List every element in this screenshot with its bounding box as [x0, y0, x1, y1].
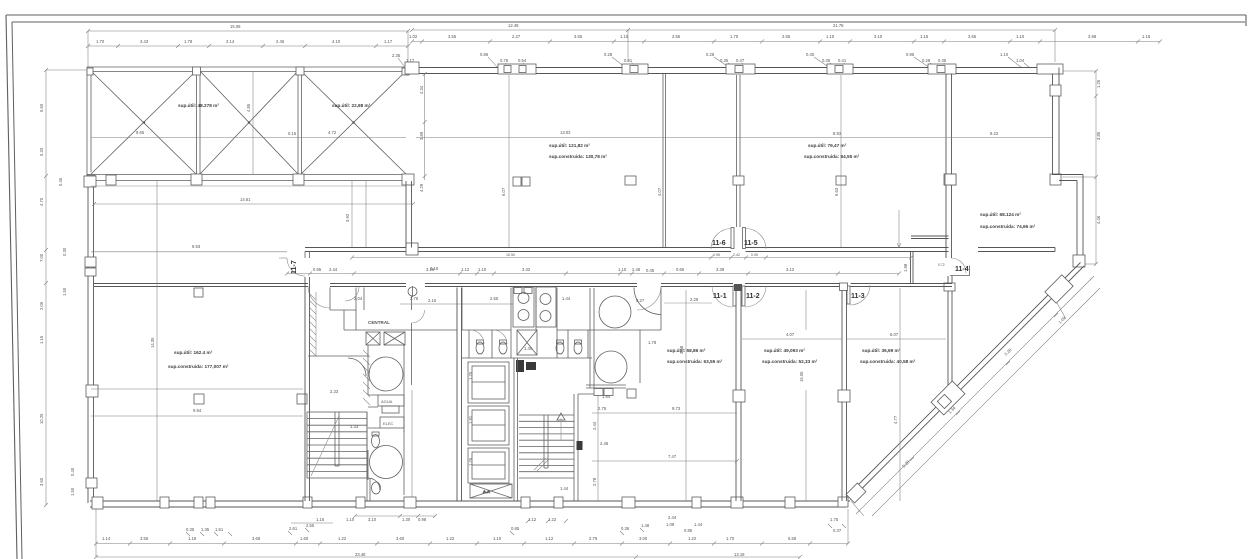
free column room 121,82: [513, 177, 521, 186]
svg-text:3.32: 3.32: [522, 267, 531, 272]
svg-text:16.06: 16.06: [799, 371, 804, 382]
door 11-4 jamb wall: [950, 266, 970, 276]
svg-text:11-2: 11-2: [746, 293, 760, 300]
svg-text:0.30: 0.30: [62, 247, 67, 256]
circles room door arc: [634, 288, 661, 315]
svg-text:0.61: 0.61: [624, 58, 633, 63]
svg-text:7.47: 7.47: [668, 454, 677, 459]
svg-text:2.44: 2.44: [592, 421, 597, 430]
svg-text:3.39: 3.39: [716, 267, 725, 272]
svg-text:3.10: 3.10: [368, 517, 377, 522]
svg-text:9.73: 9.73: [672, 406, 681, 411]
svg-text:0.95: 0.95: [906, 52, 915, 57]
door 11-4 arc: [938, 258, 969, 273]
diagonal end tick: [851, 501, 864, 516]
terrace outline: [87, 67, 409, 176]
dim 14.61 below terrace: [92, 197, 415, 206]
shower X box: [517, 330, 537, 355]
svg-text:4.29: 4.29: [419, 183, 424, 192]
svg-text:1.10: 1.10: [1000, 52, 1009, 57]
ELEC box: [380, 417, 404, 428]
right step wall: [1052, 175, 1083, 181]
dim total terrace: [86, 24, 410, 67]
svg-text:sup.construida: 177,007 m²: sup.construida: 177,007 m²: [168, 364, 229, 369]
svg-text:4.72: 4.72: [328, 130, 337, 135]
AGUA box: [378, 395, 404, 406]
dim row small near pilasters: [480, 52, 1030, 68]
svg-text:1.04: 1.04: [1016, 58, 1025, 63]
svg-text:14.35: 14.35: [150, 337, 155, 348]
sink unit left: [513, 287, 534, 327]
wc cabins left partitions: [469, 330, 492, 358]
svg-text:1.12: 1.12: [545, 536, 554, 541]
svg-text:1.44: 1.44: [694, 522, 703, 527]
svg-text:sup.construida: 74,66 m²: sup.construida: 74,66 m²: [980, 224, 1036, 229]
svg-text:1.25: 1.25: [468, 371, 473, 380]
bath area walls: [462, 288, 592, 359]
diagonal corner block: [846, 483, 866, 503]
vestibule door arc 2: [345, 287, 359, 301]
wall B thin partition (x=664): [663, 74, 666, 248]
svg-text:15.08: 15.08: [230, 24, 241, 29]
dim arrow x=899: [897, 210, 901, 248]
svg-text:2.55: 2.55: [782, 34, 791, 39]
svg-text:11-4: 11-4: [955, 266, 969, 273]
svg-text:0.95: 0.95: [751, 253, 758, 257]
svg-text:1.09: 1.09: [666, 522, 675, 527]
bottom small dim clusters: [186, 514, 846, 536]
WC in tank room: [372, 432, 380, 448]
svg-text:1.15: 1.15: [620, 34, 629, 39]
svg-text:2.44: 2.44: [329, 267, 338, 272]
core A hatched wall: [310, 292, 316, 356]
heater X-box 2: [384, 332, 405, 345]
toilet 2: [499, 340, 507, 354]
room 49,093 dims: [742, 332, 842, 339]
terrace node dots: [143, 121, 355, 123]
toilet 1 door arc: [470, 330, 484, 344]
svg-text:sup.útil: 68.124 m²: sup.útil: 68.124 m²: [980, 212, 1021, 217]
dim line x=412 lower: [411, 390, 413, 497]
svg-text:2.45: 2.45: [276, 39, 285, 44]
svg-text:sup.útil: 36,69 m²: sup.útil: 36,69 m²: [862, 348, 901, 353]
stair A right wall: [367, 412, 370, 501]
column circle symbol: [408, 286, 417, 297]
toilet 2 door arc: [493, 330, 507, 344]
circles room left wall: [590, 288, 594, 388]
svg-text:5.58: 5.58: [788, 536, 797, 541]
svg-text:11-6: 11-6: [712, 240, 726, 247]
svg-text:2.61: 2.61: [289, 526, 298, 531]
svg-text:0.45: 0.45: [646, 268, 655, 273]
svg-text:6.63: 6.63: [834, 187, 839, 196]
left wall columns: [84, 176, 96, 187]
big circle 1: [599, 296, 631, 328]
svg-text:2.33: 2.33: [330, 389, 339, 394]
svg-text:AGUA: AGUA: [381, 399, 393, 404]
door 11-1 leaf: [733, 286, 736, 306]
circles room walls: [586, 288, 661, 389]
svg-text:0.28: 0.28: [922, 58, 931, 63]
door 11-5 arc: [744, 229, 766, 250]
svg-text:sup.útil: 22,88 m²: sup.útil: 22,88 m²: [332, 103, 371, 108]
svg-text:2.46: 2.46: [600, 441, 609, 446]
tank circle 2: [370, 446, 403, 479]
svg-text:11-5: 11-5: [744, 240, 758, 247]
svg-text:3.55: 3.55: [574, 34, 583, 39]
rooms top wall y=285: [94, 284, 952, 287]
right wall upper: [1053, 68, 1060, 182]
tank 1 door arc: [348, 358, 366, 376]
dark duct 1: [516, 360, 524, 372]
svg-text:1.10: 1.10: [618, 267, 627, 272]
svg-text:0.40: 0.40: [70, 467, 75, 476]
bottom total dim row: [94, 552, 802, 559]
diagonal dim line: [856, 276, 1094, 514]
tank 2 enclosure: [368, 430, 404, 495]
svg-text:0.98: 0.98: [418, 517, 427, 522]
svg-text:0.40: 0.40: [806, 52, 815, 57]
top wall: [405, 68, 1060, 74]
tank circle 1: [369, 357, 403, 391]
partition x=411.5 with door: [411, 296, 413, 385]
svg-text:2.35: 2.35: [392, 53, 401, 58]
terrace bottom wall: [87, 175, 413, 181]
wc cabins right partitions: [557, 330, 592, 358]
svg-text:2.75: 2.75: [598, 406, 607, 411]
svg-text:sup.construida: 52,33 m²: sup.construida: 52,33 m²: [762, 359, 818, 364]
svg-text:sup.útil: 162.4 m²: sup.útil: 162.4 m²: [174, 350, 213, 355]
svg-text:0.86: 0.86: [480, 52, 489, 57]
svg-text:2.06: 2.06: [39, 301, 44, 310]
svg-text:1.40: 1.40: [524, 346, 533, 351]
svg-text:1.48: 1.48: [641, 523, 650, 528]
svg-text:1.35: 1.35: [201, 527, 210, 532]
corridor top wall columns: [406, 243, 418, 255]
svg-text:11-1: 11-1: [713, 293, 727, 300]
terrace bay divider 1: [197, 71, 201, 174]
svg-text:1.91: 1.91: [468, 415, 473, 424]
room 162.4 dims: [91, 389, 303, 416]
svg-text:4.10: 4.10: [332, 39, 341, 44]
svg-text:0.15: 0.15: [288, 131, 297, 136]
A-A box: [470, 484, 512, 498]
svg-text:0.85: 0.85: [511, 526, 520, 531]
svg-text:1.22: 1.22: [446, 536, 455, 541]
elevator shaft 2: [468, 406, 509, 445]
svg-text:1.22: 1.22: [338, 536, 347, 541]
svg-text:1.26: 1.26: [1096, 79, 1101, 88]
room 58,86 dims: [592, 406, 737, 413]
diagonal outer dim line: [872, 288, 1100, 516]
svg-text:4.85: 4.85: [246, 103, 251, 112]
svg-text:9.94: 9.94: [193, 408, 202, 413]
right wall lower: [1077, 175, 1083, 267]
svg-text:7.00: 7.00: [39, 253, 44, 262]
svg-text:6.07: 6.07: [890, 332, 899, 337]
svg-text:2.16: 2.16: [428, 298, 437, 303]
svg-text:4.46: 4.46: [1096, 215, 1101, 224]
svg-text:3.16: 3.16: [430, 266, 439, 271]
svg-text:A-A: A-A: [483, 489, 490, 494]
svg-text:0.85: 0.85: [684, 528, 693, 533]
wall below terrace right x=410: [406, 181, 412, 248]
dim texts bath: [490, 296, 571, 351]
diagonal glazing block 2 (junction): [931, 381, 965, 415]
column at wall B: [625, 176, 636, 185]
svg-text:3.10: 3.10: [874, 34, 883, 39]
svg-text:3.43: 3.43: [140, 39, 149, 44]
svg-text:3.89: 3.89: [419, 131, 424, 140]
svg-text:1.17: 1.17: [384, 39, 393, 44]
line below terrace wall: [91, 185, 406, 187]
terrace dim vertical: [252, 71, 254, 174]
core A vestibule walls: [330, 288, 356, 331]
terrace X bracing bay2: [200, 71, 298, 174]
svg-text:0.28: 0.28: [604, 52, 613, 57]
room 68.124 label: [980, 212, 1036, 229]
wall jog x=911: [911, 236, 949, 284]
svg-text:0.47: 0.47: [736, 58, 745, 63]
svg-text:3.12: 3.12: [786, 267, 795, 272]
svg-text:2.46: 2.46: [632, 267, 641, 272]
door 11-2 arc: [745, 286, 766, 307]
terrace mid dim line: [91, 130, 406, 138]
svg-text:4.34: 4.34: [419, 85, 424, 94]
terrace top columns: [193, 67, 201, 75]
wall x=737 (rooms 121,82 / 79,47): [737, 75, 741, 227]
terrace X bracing bay3: [301, 71, 406, 174]
sink unit right: [536, 287, 556, 327]
diagonal glazing block 1: [1045, 275, 1073, 303]
svg-text:0.45: 0.45: [58, 177, 63, 186]
dark duct 2: [526, 362, 536, 370]
svg-text:0.35: 0.35: [822, 58, 831, 63]
svg-text:2.29: 2.29: [690, 297, 699, 302]
circles room door arc: [637, 286, 661, 310]
toilet by stair A: [368, 478, 381, 494]
svg-text:1.16: 1.16: [39, 335, 44, 344]
svg-text:1.44: 1.44: [560, 486, 569, 491]
svg-text:3.68: 3.68: [252, 536, 261, 541]
svg-text:0.54: 0.54: [518, 58, 527, 63]
terrace bay divider 2: [298, 71, 302, 174]
svg-text:1.76: 1.76: [468, 457, 473, 466]
svg-text:1.12: 1.12: [461, 267, 470, 272]
svg-text:3.56: 3.56: [140, 536, 149, 541]
svg-text:0.28: 0.28: [706, 52, 715, 57]
svg-text:9.65: 9.65: [136, 130, 145, 135]
core A mid walls: [308, 345, 404, 432]
svg-text:2.42: 2.42: [733, 253, 740, 257]
svg-text:1.14: 1.14: [102, 536, 111, 541]
corridor top wall y=248: [305, 248, 1055, 252]
svg-text:sup.construida: 40,58 m²: sup.construida: 40,58 m²: [860, 359, 916, 364]
svg-text:9.22: 9.22: [990, 131, 999, 136]
svg-text:sup.útil: 79,47 m²: sup.útil: 79,47 m²: [808, 143, 847, 148]
svg-text:10.25: 10.25: [39, 413, 44, 424]
bottom wall columns: [92, 497, 103, 509]
door 11-3 leaf: [847, 286, 850, 304]
wall between elevators and stair B: [514, 358, 518, 501]
free column room 79,47: [836, 176, 846, 185]
door 11-1 arc: [712, 286, 733, 307]
svg-text:ELEC: ELEC: [383, 421, 394, 426]
door 11-6 arc: [711, 229, 732, 250]
svg-text:CENTRAL: CENTRAL: [368, 320, 390, 325]
svg-text:3.55: 3.55: [448, 34, 457, 39]
small boxes below wall: [594, 389, 603, 396]
svg-text:1.44: 1.44: [562, 296, 571, 301]
svg-text:1.22: 1.22: [688, 536, 697, 541]
svg-text:3.98: 3.98: [1088, 34, 1097, 39]
svg-text:3.60: 3.60: [39, 477, 44, 486]
room 162.4 columns: [194, 288, 203, 297]
svg-text:6.07: 6.07: [501, 187, 506, 196]
door 11-6 leaf: [731, 228, 734, 249]
svg-text:0.95: 0.95: [713, 253, 720, 257]
svg-text:14.61: 14.61: [240, 197, 251, 202]
svg-text:sup.útil: 58,86 m²: sup.útil: 58,86 m²: [667, 348, 706, 353]
svg-text:3.14: 3.14: [226, 39, 235, 44]
door 11-5 leaf: [743, 228, 746, 249]
diagonal wall: [847, 263, 1084, 501]
svg-text:2.55: 2.55: [672, 34, 681, 39]
svg-text:1.33: 1.33: [350, 424, 359, 429]
svg-text:1.15: 1.15: [826, 34, 835, 39]
svg-text:8.93: 8.93: [833, 131, 842, 136]
svg-text:1.75: 1.75: [830, 517, 839, 522]
svg-text:2.04: 2.04: [354, 296, 363, 301]
door 11-7: [287, 252, 310, 277]
elevator shaft 1: [468, 362, 509, 403]
door 11-3 arc: [850, 285, 870, 305]
bottom wall: [90, 501, 850, 507]
svg-text:3.85: 3.85: [1096, 131, 1101, 140]
svg-text:1.18: 1.18: [1142, 34, 1151, 39]
svg-text:1.70: 1.70: [96, 39, 105, 44]
svg-text:1.10: 1.10: [1016, 34, 1025, 39]
stairs B arrow: [557, 413, 565, 420]
core A left wall: [305, 277, 310, 501]
svg-text:1.75: 1.75: [730, 34, 739, 39]
dim row main segments: [409, 34, 1162, 44]
stairs A diagonal: [311, 416, 339, 476]
svg-text:11-3: 11-3: [851, 293, 865, 300]
room 121,82 dim: [416, 130, 1052, 138]
svg-text:3.60: 3.60: [396, 536, 405, 541]
svg-text:23.48: 23.48: [355, 552, 366, 557]
svg-text:1.10: 1.10: [493, 536, 502, 541]
svg-text:1.10: 1.10: [478, 267, 487, 272]
room 36,69 dims: [847, 332, 946, 339]
svg-text:4.07: 4.07: [657, 187, 662, 196]
left inner small dims: [58, 177, 75, 496]
elevator shaft 3: [468, 448, 509, 483]
svg-text:0.41: 0.41: [838, 58, 847, 63]
svg-text:0.36: 0.36: [621, 526, 630, 531]
bottom extension lines: [96, 509, 848, 557]
svg-text:0.37: 0.37: [833, 528, 842, 533]
svg-text:2.55: 2.55: [490, 296, 499, 301]
svg-text:0.33: 0.33: [39, 147, 44, 156]
svg-text:10.50: 10.50: [506, 253, 515, 257]
room 58,86 label: [667, 348, 723, 364]
svg-text:2.78: 2.78: [592, 477, 597, 486]
column mid room right: [945, 174, 956, 185]
dim row terrace segments: [86, 39, 410, 48]
stairs A: [307, 412, 367, 478]
svg-text:0.27: 0.27: [636, 298, 645, 303]
svg-text:3.58: 3.58: [679, 345, 684, 354]
svg-text:1.78: 1.78: [648, 340, 657, 345]
dim total 12.48 / 21.78: [410, 23, 1057, 62]
dim y=304: [400, 298, 513, 304]
svg-text:2.44: 2.44: [668, 515, 677, 520]
svg-text:5.60: 5.60: [39, 103, 44, 112]
svg-text:sup.útil: 121,82 m²: sup.útil: 121,82 m²: [549, 143, 590, 148]
svg-text:4.07: 4.07: [786, 332, 795, 337]
svg-text:2.55: 2.55: [306, 523, 315, 528]
svg-text:2.76: 2.76: [410, 296, 419, 301]
svg-text:13.19: 13.19: [734, 552, 745, 557]
svg-text:11-7: 11-7: [291, 260, 298, 274]
svg-text:1.02: 1.02: [409, 34, 418, 39]
svg-text:0.95: 0.95: [313, 267, 322, 272]
CENTRAL room walls: [344, 288, 457, 331]
svg-text:sup.útil: 48.278 m²: sup.útil: 48.278 m²: [178, 103, 219, 108]
svg-text:1.98: 1.98: [903, 263, 908, 272]
svg-text:1.84: 1.84: [602, 394, 611, 399]
toilet 4: [574, 340, 582, 354]
toilet 1: [476, 340, 484, 354]
thin line x=157: [156, 181, 158, 501]
terrace X bracing bay1: [91, 71, 196, 174]
wall x=845: [842, 290, 847, 501]
svg-text:1.60: 1.60: [300, 536, 309, 541]
hatched wall right of stairs A: [363, 350, 370, 405]
svg-text:13.03: 13.03: [560, 130, 571, 135]
svg-text:1.18: 1.18: [188, 536, 197, 541]
door 11-2 leaf: [742, 286, 745, 306]
svg-text:1.16: 1.16: [316, 517, 325, 522]
dim small cluster right of terrace: [392, 53, 415, 68]
svg-text:0.35: 0.35: [938, 58, 947, 63]
svg-text:0.75: 0.75: [500, 58, 509, 63]
left wall: [88, 176, 94, 503]
stair B right wall: [574, 394, 594, 501]
core A right wall: [457, 288, 462, 502]
svg-text:12.48: 12.48: [508, 23, 519, 28]
svg-text:1.50: 1.50: [62, 287, 67, 296]
room 79,47 label: [804, 143, 860, 159]
svg-text:1.50: 1.50: [70, 487, 75, 496]
toilet 3: [556, 340, 564, 354]
svg-text:3.65: 3.65: [968, 34, 977, 39]
svg-text:sup.útil: 49,093 m²: sup.útil: 49,093 m²: [764, 348, 805, 353]
svg-text:9.93: 9.93: [192, 244, 201, 249]
svg-text:0.65: 0.65: [676, 267, 685, 272]
svg-text:4.77: 4.77: [893, 415, 898, 424]
left room top dim lines: [91, 244, 287, 258]
room 36,69 label: [860, 348, 916, 364]
svg-text:3.00: 3.00: [639, 536, 648, 541]
vertical thin lines below terrace: [351, 181, 353, 247]
heater X-box 1: [366, 332, 380, 345]
stairs B: [519, 415, 574, 478]
svg-text:sup.construida: 130,78 m²: sup.construida: 130,78 m²: [549, 154, 607, 159]
interior dim line y=257.5: [350, 253, 913, 260]
